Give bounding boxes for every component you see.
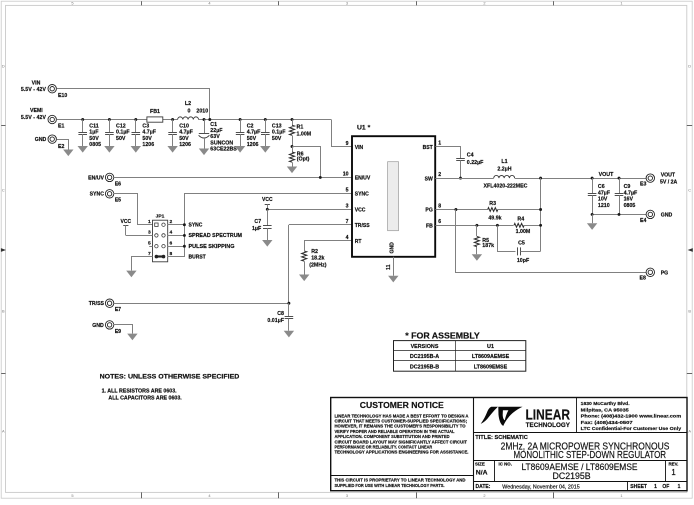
wire VEMI rail (56, 120, 351, 147)
svg-text:Milpitas, CA 95035: Milpitas, CA 95035 (581, 407, 629, 413)
svg-text:5: 5 (71, 493, 73, 498)
capacitor C10 (167, 120, 193, 153)
svg-text:1: 1 (620, 1, 622, 6)
resistor R5 (474, 225, 494, 254)
rev box (669, 461, 679, 477)
svg-text:BURST: BURST (189, 254, 206, 260)
svg-text:C4: C4 (467, 153, 474, 159)
turret E9 GND (105, 321, 121, 335)
resistor R1 (290, 120, 312, 147)
wire U1 GND pin (393, 257, 395, 276)
assembly table grid (394, 341, 526, 372)
size box (475, 462, 488, 477)
ground at R2 (299, 275, 309, 282)
svg-text:10V: 10V (598, 197, 608, 203)
svg-text:8: 8 (438, 203, 441, 209)
svg-text:FB1: FB1 (150, 109, 160, 115)
ground at E9 (127, 334, 137, 341)
node VOUT output label (660, 173, 678, 186)
svg-text:DC2195B-B: DC2195B-B (410, 364, 439, 370)
resistor R4 (514, 216, 531, 235)
svg-text:PG: PG (425, 208, 432, 214)
svg-text:4.7µF: 4.7µF (142, 130, 156, 136)
svg-text:1206: 1206 (179, 142, 191, 148)
node VOUT label (599, 172, 614, 178)
pin label 6 FB (438, 219, 441, 225)
svg-text:SYNC: SYNC (189, 223, 203, 229)
svg-text:(2MHz): (2MHz) (309, 263, 327, 269)
svg-text:TR/SS: TR/SS (355, 223, 371, 229)
svg-text:3: 3 (148, 230, 151, 236)
svg-text:1µF: 1µF (89, 130, 99, 136)
svg-text:GND: GND (92, 323, 104, 329)
svg-text:IC NO.: IC NO. (499, 461, 512, 466)
turret E2 GND (48, 135, 64, 150)
svg-text:C5: C5 (518, 241, 525, 247)
svg-text:C1: C1 (210, 122, 217, 128)
wire PG pin to R3 (435, 209, 487, 211)
svg-text:C3: C3 (142, 124, 149, 130)
sheet box (630, 484, 680, 490)
wire VIN E10 to rail (57, 89, 210, 120)
svg-text:5V / 2A: 5V / 2A (660, 179, 678, 185)
svg-text:E5: E5 (115, 198, 121, 204)
svg-text:LT8609EMSE: LT8609EMSE (474, 364, 508, 370)
node PG label (661, 270, 669, 276)
svg-text:10pF: 10pF (517, 258, 530, 264)
junction R3 dot (539, 208, 542, 211)
svg-text:50V: 50V (89, 136, 99, 142)
pin label 8 PG (438, 203, 441, 209)
svg-text:1: 1 (678, 484, 681, 490)
svg-text:63CE22BS: 63CE22BS (210, 147, 237, 153)
capacitor C6 (588, 178, 611, 214)
svg-text:E1: E1 (58, 123, 64, 129)
svg-text:49.9k: 49.9k (488, 215, 501, 221)
junction EN/UV dot (319, 176, 322, 179)
svg-text:4: 4 (170, 230, 173, 236)
Linear Technology logo (481, 407, 571, 429)
svg-text:VCC: VCC (262, 197, 273, 203)
svg-text:VCC: VCC (355, 208, 366, 214)
jumper JP1 pins and shunt on 7-8 (155, 223, 166, 258)
svg-text:SHEET: SHEET (630, 484, 647, 490)
title text (475, 435, 669, 461)
pin label 9 VIN (346, 141, 349, 147)
svg-text:1. ALL RESISTORS ARE 0603.: 1. ALL RESISTORS ARE 0603. (102, 388, 178, 394)
svg-text:BST: BST (423, 145, 434, 151)
svg-text:9: 9 (346, 141, 349, 147)
node VIN label (21, 80, 47, 93)
capacitor C8 (267, 303, 294, 337)
svg-text:SIZE: SIZE (475, 462, 485, 467)
svg-text:5.5V - 42V: 5.5V - 42V (21, 87, 47, 93)
svg-text:2.2µH: 2.2µH (497, 167, 511, 173)
svg-text:1210: 1210 (598, 203, 610, 209)
svg-text:N/A: N/A (476, 469, 488, 476)
capacitor C7 (252, 209, 273, 246)
svg-text:0.1µF: 0.1µF (116, 130, 130, 136)
svg-text:4.7µF: 4.7µF (624, 190, 638, 196)
wire JP1 pin4 stub (168, 235, 185, 237)
resistor R3 (488, 201, 502, 221)
wire JP1 pin5 stub (149, 246, 152, 248)
svg-text:7: 7 (346, 219, 349, 225)
svg-text:A: A (688, 429, 691, 434)
capacitor C4 (456, 147, 484, 178)
svg-text:U1: U1 (487, 344, 494, 350)
svg-text:C10: C10 (179, 124, 189, 130)
wire R1 junction to EN/UV (293, 147, 321, 178)
date box (476, 484, 580, 490)
regulator U1 box (352, 125, 435, 257)
svg-text:C13: C13 (272, 124, 282, 130)
wire JP1 pin2 stub (168, 224, 185, 226)
ferrite bead FB1 (147, 109, 163, 122)
svg-text:187k: 187k (482, 243, 494, 249)
node TR/SS label (89, 301, 105, 307)
svg-text:C: C (688, 188, 691, 193)
ic number box (499, 461, 638, 480)
svg-text:2: 2 (438, 172, 441, 178)
wire E9 to ground (114, 325, 133, 334)
wire R3 to VOUT line (498, 209, 541, 211)
wire L1 to VOUT turret (515, 178, 647, 180)
svg-text:0.22µF: 0.22µF (467, 160, 484, 166)
assembly table text (410, 344, 510, 370)
svg-text:U1 *: U1 * (357, 125, 371, 132)
wire PG to E8 (456, 210, 647, 273)
node GND E2 label (35, 137, 47, 143)
svg-text:11: 11 (386, 264, 392, 270)
node GND E4 label (661, 212, 673, 218)
ground at R6 (287, 167, 297, 174)
svg-text:ALL CAPACITORS ARE 0603.: ALL CAPACITORS ARE 0603. (108, 396, 182, 402)
svg-text:PG: PG (661, 270, 669, 276)
svg-text:EN/UV: EN/UV (355, 176, 371, 182)
svg-text:VIN: VIN (355, 145, 364, 151)
ground at C6 (587, 214, 597, 230)
turret E6 EN/UV (105, 173, 121, 187)
svg-text:E9: E9 (115, 329, 121, 335)
wire U1 SYNC to JP1 selector (168, 194, 352, 257)
svg-text:C9: C9 (624, 184, 631, 190)
capacitor C3 (131, 120, 157, 153)
inductor L2 (178, 101, 209, 119)
svg-text:SUPPLIED FOR USE WITH LINEAR T: SUPPLIED FOR USE WITH LINEAR TECHNOLOGY … (335, 483, 445, 488)
svg-text:50V: 50V (272, 136, 282, 142)
svg-text:18.2k: 18.2k (311, 256, 324, 262)
turret E7 TR/SS (105, 299, 121, 313)
address text (581, 401, 682, 432)
svg-text:LTC Confidential-For Customer: LTC Confidential-For Customer Use Only (581, 426, 682, 432)
svg-text:TITLE: SCHEMATIC: TITLE: SCHEMATIC (475, 435, 528, 441)
junction R1-R6-EN/UV (291, 145, 294, 148)
svg-text:R3: R3 (489, 201, 496, 207)
customer notice proprietary text (335, 478, 466, 489)
svg-text:1µF: 1µF (252, 226, 262, 232)
svg-text:* FOR ASSEMBLY: * FOR ASSEMBLY (405, 330, 480, 340)
svg-text:50V: 50V (116, 136, 126, 142)
svg-text:6: 6 (438, 219, 441, 225)
svg-text:MONOLITHIC STEP-DOWN REGULATOR: MONOLITHIC STEP-DOWN REGULATOR (514, 450, 667, 461)
svg-text:16V: 16V (624, 197, 634, 203)
svg-text:0805: 0805 (89, 142, 101, 148)
wire R4 to VOUT line (524, 225, 540, 227)
svg-text:3: 3 (346, 493, 348, 498)
svg-text:1: 1 (148, 219, 151, 225)
svg-text:10: 10 (343, 172, 349, 178)
capacitor C9 (615, 178, 638, 214)
svg-text:E7: E7 (115, 307, 121, 313)
pin label 10 EN/UV (343, 172, 349, 178)
svg-text:0: 0 (188, 109, 191, 115)
svg-text:4: 4 (346, 235, 349, 241)
svg-text:L2: L2 (185, 101, 191, 107)
turret E3 VOUT (640, 174, 655, 188)
wire TR/SS net (114, 225, 352, 304)
svg-text:SPREAD SPECTRUM: SPREAD SPECTRUM (189, 233, 243, 239)
resistor R6 (290, 147, 310, 167)
svg-text:3: 3 (346, 1, 348, 6)
svg-text:C8: C8 (277, 311, 284, 317)
svg-text:5.5V - 42V: 5.5V - 42V (21, 115, 47, 121)
wire VOUT vertical (540, 178, 542, 251)
svg-text:Fax: (408)434-0507: Fax: (408)434-0507 (581, 420, 633, 426)
pin label 7 TR/SS (346, 219, 349, 225)
svg-text:TR/SS: TR/SS (89, 301, 105, 307)
turret E1 VEMI (48, 115, 64, 129)
svg-text:C2: C2 (247, 124, 254, 130)
svg-text:VERSIONS: VERSIONS (411, 344, 439, 350)
resistor R2 (302, 249, 327, 275)
svg-text:DATE:: DATE: (476, 484, 491, 490)
svg-text:1: 1 (438, 141, 441, 147)
svg-text:R4: R4 (517, 216, 524, 222)
ground at JP1 pin7 (126, 271, 136, 278)
svg-text:Wednesday, November 04, 2015: Wednesday, November 04, 2015 (502, 484, 579, 490)
svg-text:A: A (2, 429, 5, 434)
svg-text:E4: E4 (640, 218, 646, 224)
U1 GND pin name (389, 242, 395, 254)
svg-text:4.7µF: 4.7µF (247, 130, 261, 136)
svg-text:VOUT: VOUT (661, 173, 676, 179)
turret E10 VIN (48, 85, 67, 99)
svg-text:LINEAR: LINEAR (526, 407, 571, 423)
svg-text:E3: E3 (640, 182, 646, 188)
svg-text:GND: GND (661, 212, 673, 218)
turret E4 GND (640, 210, 655, 224)
JP1 pin numbers (148, 219, 173, 257)
inductor L1 (484, 159, 528, 189)
svg-text:C12: C12 (116, 124, 126, 130)
svg-text:1: 1 (671, 468, 675, 477)
junction C4-SW dot (459, 177, 462, 180)
svg-text:47µF: 47µF (598, 190, 611, 196)
svg-text:E10: E10 (58, 93, 67, 99)
svg-text:XFL4020-222MEC: XFL4020-222MEC (484, 183, 528, 189)
svg-text:50V: 50V (247, 136, 257, 142)
svg-text:5: 5 (346, 187, 349, 193)
svg-text:50V: 50V (179, 136, 189, 142)
node VEMI label (21, 108, 47, 121)
svg-text:TECHNOLOGY: TECHNOLOGY (526, 422, 571, 429)
svg-text:DC2195B-A: DC2195B-A (410, 354, 439, 360)
pin label 1 BST (438, 141, 441, 147)
svg-text:EN/UV: EN/UV (88, 175, 104, 181)
svg-text:E8: E8 (640, 276, 646, 282)
svg-text:PULSE SKIPPING: PULSE SKIPPING (189, 244, 235, 250)
junction dots VOUT rail (539, 177, 620, 180)
svg-text:0805: 0805 (624, 203, 636, 209)
svg-text:1: 1 (620, 493, 622, 498)
svg-text:0.01µF: 0.01µF (267, 318, 284, 324)
svg-text:5: 5 (71, 1, 73, 6)
svg-text:OF: OF (662, 484, 669, 490)
svg-text:0.1µF: 0.1µF (272, 130, 286, 136)
svg-text:GND: GND (389, 242, 395, 254)
svg-text:2: 2 (483, 493, 485, 498)
wire JP1 pin7 to ground (132, 257, 153, 271)
wire E2 to ground (57, 140, 69, 150)
wire JP1 pin6 stub (168, 246, 185, 248)
customer notice heading (360, 400, 444, 410)
jumper JP1 box (153, 214, 168, 262)
note 1 (102, 388, 183, 401)
svg-text:1.00M: 1.00M (516, 229, 531, 235)
node GND E9 label (92, 323, 104, 329)
wire EN/UV to U1 pin10 (114, 177, 352, 179)
svg-text:6: 6 (170, 241, 173, 247)
svg-text:VOUT: VOUT (599, 172, 614, 178)
wire VCC to JP1 pin3 (126, 235, 153, 237)
junction FB dots (475, 224, 498, 227)
node SYNC label (90, 192, 105, 198)
wire VCC to U1 pin3 (267, 209, 351, 211)
wire BST to C4 (436, 147, 461, 159)
capacitor C2 (235, 120, 261, 153)
svg-text:C: C (2, 188, 5, 193)
junction VCC dot (266, 208, 269, 211)
svg-text:1206: 1206 (247, 142, 259, 148)
wire output ground rail (592, 214, 646, 216)
capacitor C1 electrolytic (199, 120, 238, 156)
svg-text:SW: SW (425, 176, 433, 182)
turret E5 SYNC (105, 190, 121, 204)
turret E8 PG (640, 268, 655, 282)
svg-text:B: B (688, 309, 691, 314)
junction dots JP1 selector (183, 223, 186, 247)
svg-text:50V: 50V (142, 136, 152, 142)
svg-text:DC2195B: DC2195B (553, 471, 591, 481)
svg-text:TECHNOLOGY APPLICATIONS ENGINE: TECHNOLOGY APPLICATIONS ENGINEERING FOR … (335, 450, 469, 455)
svg-text:SYNC: SYNC (90, 192, 105, 198)
pin label 4 RT (346, 235, 349, 241)
svg-text:R2: R2 (311, 249, 318, 255)
junction PG dot (454, 208, 457, 211)
junction R4 dot (539, 224, 542, 227)
svg-text:JP1: JP1 (156, 214, 165, 220)
svg-text:VEMI: VEMI (30, 108, 43, 114)
svg-text:E6: E6 (115, 181, 121, 187)
svg-text:(Opt): (Opt) (297, 156, 310, 162)
svg-text:D: D (2, 64, 5, 69)
svg-text:SYNC: SYNC (355, 191, 369, 197)
U1 pin 11 label (386, 264, 392, 270)
power VCC at JP1 (121, 219, 132, 236)
U1 pin names (355, 145, 434, 245)
JP1 mode labels (189, 223, 243, 261)
svg-text:B: B (2, 309, 5, 314)
svg-text:3: 3 (346, 204, 349, 210)
notes heading (100, 374, 240, 381)
svg-text:2010: 2010 (196, 109, 208, 115)
capacitor C11 (78, 120, 102, 153)
svg-text:D: D (688, 64, 691, 69)
capacitor C12 (104, 120, 130, 153)
ground at U1 GND (388, 276, 398, 283)
svg-text:1: 1 (654, 484, 657, 490)
svg-text:63V: 63V (210, 134, 220, 140)
assembly table heading (405, 330, 480, 340)
junction TR/SS dot (287, 302, 290, 305)
svg-text:VCC: VCC (121, 219, 132, 225)
wire FB pin (435, 225, 513, 227)
svg-text:GND: GND (35, 137, 47, 143)
svg-text:LT8609AEMSE: LT8609AEMSE (472, 354, 510, 360)
power VCC at C7 (262, 197, 273, 209)
pin label 5 SYNC (346, 187, 349, 193)
ground at R5 (472, 254, 482, 261)
U1 exposed pad (388, 162, 399, 231)
svg-text:C6: C6 (598, 184, 605, 190)
svg-text:CUSTOMER NOTICE: CUSTOMER NOTICE (360, 400, 444, 410)
svg-text:SUNCON: SUNCON (210, 140, 233, 146)
wire RT to R2 (305, 241, 352, 251)
svg-text:5: 5 (148, 241, 151, 247)
junction dots on input rail (81, 118, 293, 121)
svg-text:1630 McCarthy Blvd.: 1630 McCarthy Blvd. (581, 401, 631, 407)
svg-text:4.7µF: 4.7µF (179, 130, 193, 136)
svg-text:22µF: 22µF (210, 128, 223, 134)
ground at E2 (63, 150, 73, 157)
svg-text:1.00M: 1.00M (297, 132, 312, 138)
customer notice paragraph (335, 413, 470, 454)
node EN/UV label (88, 175, 104, 181)
pin label 3 VCC (346, 204, 349, 210)
wire SYNC E5 to JP1 pin1 (114, 194, 153, 225)
svg-text:REV.: REV. (669, 461, 679, 466)
capacitor C5 loop (498, 226, 541, 265)
svg-text:VIN: VIN (32, 80, 41, 86)
svg-text:NOTES: UNLESS OTHERWISE SPECI: NOTES: UNLESS OTHERWISE SPECIFIED (100, 374, 240, 381)
pin label 2 SW (438, 172, 441, 178)
svg-text:RT: RT (355, 239, 363, 245)
svg-text:Phone: (408)432-1900 www.lin: Phone: (408)432-1900 www.linear.com (581, 414, 682, 420)
wire SW to L1 (435, 178, 493, 180)
svg-text:1206: 1206 (142, 142, 154, 148)
svg-text:C7: C7 (254, 219, 261, 225)
title block grid (331, 398, 687, 491)
capacitor C13 (260, 120, 286, 153)
svg-text:2: 2 (483, 1, 485, 6)
svg-text:L1: L1 (501, 159, 507, 165)
svg-text:R1: R1 (297, 125, 304, 131)
svg-text:FB: FB (426, 224, 433, 230)
svg-text:C11: C11 (89, 124, 98, 130)
junction dots output ground (591, 213, 621, 216)
svg-text:E2: E2 (58, 144, 64, 150)
